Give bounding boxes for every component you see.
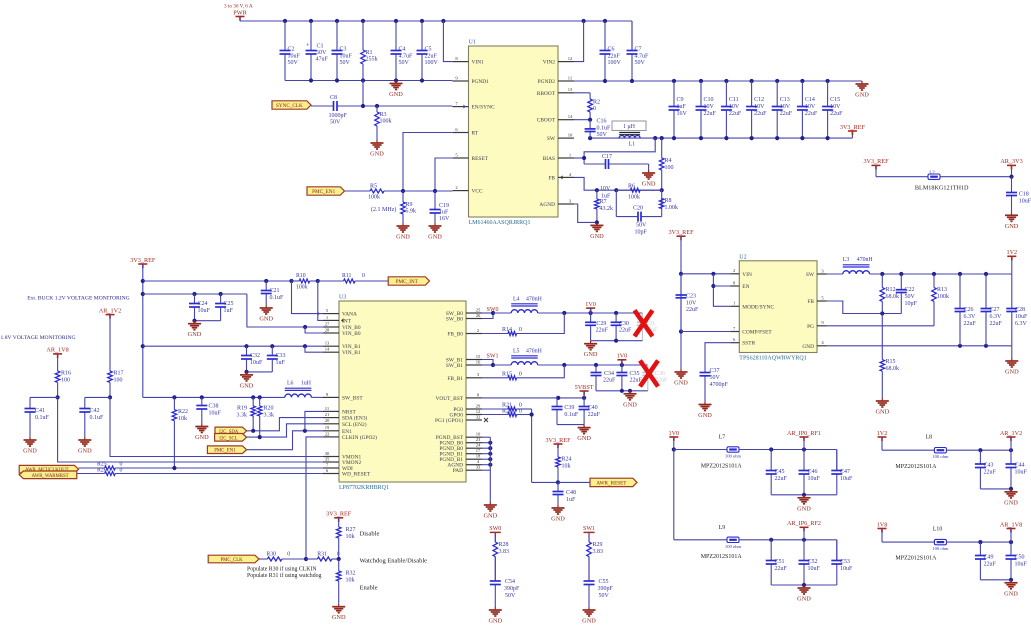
svg-text:50V: 50V: [399, 60, 410, 66]
svg-text:27: 27: [325, 321, 330, 326]
svg-text:EN1: EN1: [342, 429, 352, 435]
svg-text:C33: C33: [276, 353, 286, 359]
svg-text:R17: R17: [114, 371, 124, 377]
svg-text:100V: 100V: [425, 60, 439, 66]
svg-text:C30: C30: [619, 321, 629, 327]
svg-text:SW: SW: [547, 136, 556, 142]
svg-text:C7: C7: [635, 47, 642, 53]
svg-text:43.2k: 43.2k: [600, 206, 614, 212]
svg-text:L6: L6: [287, 381, 294, 387]
svg-text:16V: 16V: [677, 111, 688, 117]
svg-text:VANA: VANA: [342, 312, 357, 318]
svg-text:Populate R31 if using watchdog: Populate R31 if using watchdog: [247, 572, 321, 579]
svg-text:50V: 50V: [635, 60, 646, 66]
svg-text:BIAS: BIAS: [543, 156, 555, 162]
svg-text:50V: 50V: [288, 60, 299, 66]
svg-text:1uF: 1uF: [677, 104, 687, 110]
svg-text:C43: C43: [984, 463, 994, 469]
svg-text:AGND: AGND: [539, 202, 555, 208]
svg-text:0.1uF: 0.1uF: [564, 412, 579, 418]
svg-text:GND: GND: [1005, 369, 1019, 376]
svg-text:VIN_B1: VIN_B1: [342, 350, 361, 356]
svg-text:GND: GND: [590, 233, 604, 240]
svg-text:10k: 10k: [346, 534, 355, 540]
svg-text:SW_B0: SW_B0: [446, 317, 463, 323]
svg-text:SW_BST: SW_BST: [342, 395, 363, 401]
svg-text:6.3V: 6.3V: [1015, 321, 1028, 327]
svg-text:C52: C52: [808, 559, 818, 565]
svg-text:R26: R26: [97, 467, 107, 473]
svg-text:3V3_REF: 3V3_REF: [545, 437, 571, 444]
svg-text:C12: C12: [754, 97, 764, 103]
svg-text:C16: C16: [597, 119, 607, 125]
svg-text:6.3V: 6.3V: [964, 314, 977, 320]
svg-text:C18: C18: [1019, 191, 1029, 197]
svg-text:GND: GND: [195, 434, 209, 441]
svg-text:SW_B1: SW_B1: [446, 363, 463, 369]
svg-text:PMC_EN1: PMC_EN1: [312, 189, 335, 195]
svg-text:50V: 50V: [710, 375, 721, 381]
svg-text:C4: C4: [399, 47, 406, 53]
svg-text:BLM18KG121TH1D: BLM18KG121TH1D: [915, 185, 969, 192]
svg-text:GND: GND: [188, 331, 202, 338]
svg-text:0: 0: [519, 371, 522, 377]
svg-text:10uF: 10uF: [1019, 198, 1031, 204]
svg-text:AR_1V8: AR_1V8: [46, 347, 68, 354]
svg-text:50V: 50V: [340, 60, 351, 66]
svg-text:23: 23: [476, 437, 481, 442]
svg-text:22uF: 22uF: [425, 54, 438, 60]
svg-text:R22: R22: [178, 409, 188, 415]
svg-text:47uF: 47uF: [316, 57, 329, 63]
svg-text:SDA (EN3): SDA (EN3): [342, 415, 368, 422]
svg-text:C6: C6: [608, 47, 615, 53]
svg-text:32: 32: [476, 414, 481, 419]
svg-text:22uF: 22uF: [830, 111, 843, 117]
svg-text:R28: R28: [499, 542, 509, 548]
svg-text:C25: C25: [224, 301, 234, 307]
svg-text:10k: 10k: [562, 464, 571, 470]
svg-text:R7: R7: [600, 199, 607, 205]
svg-text:17: 17: [476, 448, 481, 453]
svg-text:C23: C23: [686, 294, 696, 300]
svg-text:GND: GND: [577, 435, 591, 442]
svg-text:390pF: 390pF: [504, 586, 520, 592]
svg-text:R12: R12: [886, 287, 896, 293]
svg-text:100: 100: [61, 378, 70, 384]
svg-text:TPS628110AQWRWYRQ1: TPS628110AQWRWYRQ1: [739, 356, 806, 362]
svg-text:C49: C49: [984, 555, 994, 561]
svg-text:100V: 100V: [608, 60, 622, 66]
svg-text:EN/SYNC: EN/SYNC: [472, 105, 495, 111]
svg-text:22uF: 22uF: [596, 328, 609, 334]
svg-text:R16: R16: [61, 371, 71, 377]
svg-text:PAD: PAD: [453, 468, 463, 474]
svg-text:C37: C37: [710, 368, 720, 374]
svg-text:GND: GND: [855, 92, 869, 99]
svg-text:Watchdog Enable/Disable: Watchdog Enable/Disable: [360, 558, 428, 565]
svg-text:100k: 100k: [937, 294, 949, 300]
svg-text:C55: C55: [599, 579, 609, 585]
svg-text:L7: L7: [719, 435, 726, 441]
svg-text:10uF: 10uF: [1015, 314, 1028, 320]
svg-text:C54: C54: [505, 579, 515, 585]
svg-text:10V: 10V: [780, 104, 791, 110]
svg-text:R14: R14: [502, 327, 512, 333]
svg-text:0: 0: [519, 327, 522, 333]
svg-text:GND: GND: [797, 505, 811, 512]
svg-text:SSTR: SSTR: [742, 341, 755, 347]
svg-text:C39: C39: [564, 405, 574, 411]
svg-text:GND: GND: [428, 234, 442, 241]
svg-text:C22: C22: [905, 287, 915, 293]
svg-text:6.3V: 6.3V: [990, 314, 1003, 320]
svg-text:20: 20: [325, 418, 330, 423]
svg-text:PMC_EN1: PMC_EN1: [214, 449, 236, 454]
svg-text:C10: C10: [704, 97, 714, 103]
svg-text:1uH: 1uH: [301, 381, 312, 387]
svg-text:C19: C19: [439, 203, 449, 209]
svg-text:MODE/SYNC: MODE/SYNC: [742, 304, 774, 310]
svg-text:GND: GND: [875, 409, 889, 416]
svg-text:AWR_WARMRST: AWR_WARMRST: [32, 474, 69, 479]
svg-text:R1: R1: [366, 50, 373, 56]
svg-text:0.1uF: 0.1uF: [597, 126, 612, 132]
svg-text:FB_B1: FB_B1: [447, 376, 463, 382]
svg-text:10uF: 10uF: [1015, 470, 1028, 476]
svg-text:100 ohm: 100 ohm: [932, 454, 949, 459]
svg-text:100 ohm: 100 ohm: [725, 454, 742, 459]
svg-text:(2.1 MHz): (2.1 MHz): [371, 206, 396, 213]
svg-text:24: 24: [476, 443, 481, 448]
svg-text:SCL (EN2): SCL (EN2): [342, 421, 367, 428]
svg-text:C36: C36: [655, 371, 665, 377]
svg-text:C5: C5: [425, 47, 432, 53]
svg-text:L8: L8: [926, 435, 933, 441]
svg-text:390pF: 390pF: [598, 586, 614, 592]
svg-text:C46: C46: [808, 469, 818, 475]
svg-text:R2: R2: [593, 100, 600, 106]
svg-text:22: 22: [325, 431, 330, 436]
svg-text:R4: R4: [665, 158, 672, 164]
svg-text:GND: GND: [674, 380, 688, 387]
svg-text:C38: C38: [209, 404, 219, 410]
svg-text:AR_3V3: AR_3V3: [1000, 158, 1022, 165]
svg-text:1uF: 1uF: [566, 497, 576, 503]
svg-text:10k: 10k: [178, 416, 187, 422]
svg-text:GND: GND: [332, 614, 346, 621]
svg-text:10V: 10V: [600, 186, 611, 192]
svg-text:GND: GND: [23, 448, 37, 455]
svg-text:29: 29: [476, 403, 481, 408]
svg-text:10pF: 10pF: [635, 230, 648, 236]
svg-text:1V0: 1V0: [668, 430, 679, 437]
svg-text:PMC_CLK: PMC_CLK: [220, 558, 243, 563]
svg-text:C9: C9: [677, 97, 684, 103]
svg-text:R32: R32: [346, 571, 356, 577]
svg-text:WD_RESET: WD_RESET: [342, 472, 371, 478]
svg-text:C2: C2: [288, 47, 295, 53]
svg-text:100k: 100k: [368, 195, 380, 201]
svg-text:COMP/FSET: COMP/FSET: [742, 330, 772, 336]
svg-text:11: 11: [568, 75, 573, 80]
svg-text:50V: 50V: [597, 132, 608, 138]
svg-text:1.00k: 1.00k: [665, 205, 679, 211]
svg-text:U1: U1: [469, 40, 476, 46]
svg-text:AR_1V2: AR_1V2: [99, 307, 121, 314]
svg-text:GND: GND: [259, 316, 273, 323]
svg-text:SW1: SW1: [583, 526, 595, 532]
svg-text:10V: 10V: [729, 104, 740, 110]
svg-text:470nH: 470nH: [526, 349, 543, 355]
svg-text:13: 13: [568, 87, 573, 92]
svg-text:C42: C42: [90, 408, 100, 414]
svg-text:10V: 10V: [704, 104, 715, 110]
svg-text:AR_IP0_RF1: AR_IP0_RF1: [787, 430, 821, 437]
svg-text:22uF: 22uF: [603, 378, 616, 384]
svg-text:GND: GND: [642, 181, 656, 188]
svg-text:100k: 100k: [380, 119, 392, 125]
svg-text:MPZ2012S101A: MPZ2012S101A: [701, 464, 743, 470]
svg-text:10uF: 10uF: [198, 308, 211, 314]
svg-text:GND: GND: [1005, 223, 1019, 230]
svg-text:L3: L3: [843, 257, 850, 263]
svg-text:100 ohm: 100 ohm: [932, 546, 949, 551]
svg-text:GND: GND: [370, 151, 384, 158]
svg-text:19: 19: [325, 425, 330, 430]
svg-text:10uF: 10uF: [288, 54, 301, 60]
svg-text:22uF: 22uF: [729, 111, 742, 117]
svg-text:50V: 50V: [599, 593, 610, 599]
svg-text:0.1uF: 0.1uF: [90, 415, 105, 421]
svg-text:21: 21: [325, 412, 330, 417]
svg-text:C14: C14: [805, 97, 815, 103]
svg-text:R15: R15: [886, 359, 896, 365]
svg-text:C32: C32: [250, 353, 260, 359]
svg-text:L2: L2: [929, 171, 935, 176]
svg-text:100: 100: [665, 165, 674, 171]
svg-text:GND: GND: [1004, 499, 1018, 506]
svg-text:RBOOT: RBOOT: [537, 91, 556, 97]
svg-text:L4: L4: [513, 297, 520, 303]
svg-text:C48: C48: [566, 490, 576, 496]
svg-text:FB: FB: [548, 175, 555, 181]
svg-text:C34: C34: [604, 371, 614, 377]
svg-text:68.0k: 68.0k: [886, 294, 900, 300]
svg-text:Enable: Enable: [360, 585, 378, 592]
svg-text:C28: C28: [1015, 307, 1025, 313]
svg-text:SW1: SW1: [487, 354, 499, 360]
svg-text:C45: C45: [775, 469, 785, 475]
svg-text:C47: C47: [840, 469, 850, 475]
svg-text:C15: C15: [830, 97, 840, 103]
svg-text:1uF: 1uF: [276, 360, 286, 366]
svg-text:C13: C13: [780, 97, 790, 103]
svg-text:10uF: 10uF: [250, 360, 263, 366]
svg-text:10k: 10k: [346, 578, 355, 584]
svg-text:R20: R20: [264, 406, 274, 412]
svg-text:1uF: 1uF: [224, 308, 234, 314]
svg-text:Ext. BUCK 1.2V VOLTAGE MONITOR: Ext. BUCK 1.2V VOLTAGE MONITORING: [27, 296, 130, 302]
svg-text:C3: C3: [340, 47, 347, 53]
svg-text:25: 25: [476, 307, 481, 312]
svg-text:1V8: 1V8: [877, 521, 888, 528]
svg-text:22uF: 22uF: [805, 111, 818, 117]
svg-text:22uF: 22uF: [775, 476, 788, 482]
svg-text:VCC: VCC: [472, 189, 483, 195]
svg-text:R30: R30: [266, 552, 276, 558]
svg-text:C44: C44: [1015, 463, 1025, 469]
svg-text:SW0: SW0: [489, 526, 501, 532]
svg-text:10uF: 10uF: [840, 566, 853, 572]
svg-text:255k: 255k: [366, 57, 378, 63]
svg-text:4.7uF: 4.7uF: [399, 54, 414, 60]
svg-text:C41: C41: [35, 408, 45, 414]
svg-text:12: 12: [568, 56, 573, 61]
svg-text:GND: GND: [488, 618, 502, 625]
svg-text:68.0k: 68.0k: [886, 366, 900, 372]
svg-text:50V: 50V: [505, 593, 516, 599]
svg-text:10V: 10V: [830, 104, 841, 110]
svg-text:C1: C1: [317, 44, 324, 50]
svg-text:SW: SW: [806, 272, 815, 278]
svg-text:14: 14: [325, 347, 330, 352]
svg-text:0: 0: [362, 273, 365, 279]
svg-text:R23: R23: [502, 408, 512, 414]
svg-text:10V: 10V: [805, 104, 816, 110]
svg-text:C17: C17: [602, 154, 612, 160]
svg-text:GND: GND: [483, 513, 497, 520]
svg-text:5VBST: 5VBST: [575, 384, 594, 391]
svg-text:33: 33: [476, 465, 481, 470]
svg-text:50V: 50V: [330, 120, 341, 126]
svg-text:L1: L1: [629, 142, 636, 148]
svg-text:16: 16: [476, 359, 481, 364]
svg-text:22nF: 22nF: [608, 54, 621, 60]
svg-text:22uF: 22uF: [754, 111, 767, 117]
svg-text:GND: GND: [584, 351, 598, 358]
svg-text:28: 28: [325, 327, 330, 332]
svg-text:R10: R10: [296, 273, 306, 279]
svg-text:PWR: PWR: [233, 9, 247, 16]
svg-text:22uF: 22uF: [686, 307, 699, 313]
svg-text:R27: R27: [346, 527, 356, 533]
svg-text:R5: R5: [370, 184, 377, 190]
svg-text:3.83: 3.83: [593, 549, 604, 555]
svg-text:0: 0: [287, 552, 290, 558]
svg-text:470nH: 470nH: [857, 257, 874, 263]
svg-text:C26: C26: [964, 307, 974, 313]
svg-text:PG1 (GPO1): PG1 (GPO1): [435, 417, 463, 424]
svg-text:1V0: 1V0: [617, 353, 628, 360]
svg-text:C21: C21: [270, 288, 280, 294]
svg-text:10pF: 10pF: [905, 301, 918, 307]
svg-text:GND: GND: [389, 91, 403, 98]
svg-text:AR_1V8: AR_1V8: [1000, 521, 1022, 528]
svg-text:GND: GND: [698, 412, 712, 419]
svg-text:470nH: 470nH: [526, 297, 543, 303]
svg-text:3.3k: 3.3k: [264, 413, 275, 419]
svg-text:C40: C40: [588, 405, 598, 411]
svg-text:AR_IP6_RF2: AR_IP6_RF2: [787, 520, 821, 527]
svg-text:C35: C35: [630, 371, 640, 377]
svg-text:VOUT_BST: VOUT_BST: [435, 396, 463, 402]
svg-text:FB: FB: [807, 299, 814, 305]
svg-text:0.1uF: 0.1uF: [35, 415, 50, 421]
svg-text:1.8V VOLTAGE MONITORING: 1.8V VOLTAGE MONITORING: [1, 335, 76, 341]
svg-text:C50: C50: [1015, 555, 1025, 561]
svg-text:CBOOT: CBOOT: [537, 118, 556, 124]
svg-text:PGND1: PGND1: [472, 79, 490, 85]
svg-text:22uF: 22uF: [984, 470, 997, 476]
svg-text:10: 10: [476, 432, 481, 437]
svg-text:C29: C29: [596, 321, 606, 327]
svg-text:GND: GND: [797, 596, 811, 603]
svg-text:RT: RT: [472, 131, 479, 137]
svg-text:C24: C24: [198, 301, 208, 307]
svg-text:R19: R19: [237, 406, 247, 412]
svg-text:R8: R8: [665, 198, 672, 204]
svg-text:10uF: 10uF: [209, 411, 222, 417]
svg-text:22uF: 22uF: [704, 111, 717, 117]
svg-text:GND: GND: [78, 448, 92, 455]
svg-text:VIN_B0: VIN_B0: [342, 331, 361, 337]
svg-text:GND: GND: [1004, 590, 1018, 597]
svg-text:100: 100: [114, 378, 123, 384]
svg-text:10V: 10V: [686, 301, 697, 307]
svg-text:5.9k: 5.9k: [406, 209, 417, 215]
svg-text:1V0: 1V0: [585, 301, 596, 308]
svg-text:R24: R24: [562, 457, 572, 463]
svg-text:4700pF: 4700pF: [710, 382, 729, 388]
svg-text:100 ohm: 100 ohm: [725, 544, 742, 549]
svg-text:22uF: 22uF: [780, 111, 793, 117]
svg-text:GND: GND: [551, 516, 565, 523]
svg-text:VIN1: VIN1: [472, 60, 485, 66]
svg-text:0: 0: [120, 467, 123, 473]
svg-text:10uF: 10uF: [808, 566, 821, 572]
svg-text:50V: 50V: [905, 294, 916, 300]
svg-text:0: 0: [593, 106, 596, 112]
svg-text:26: 26: [476, 313, 481, 318]
svg-text:1V2: 1V2: [1006, 249, 1017, 256]
svg-text:3.83: 3.83: [499, 549, 510, 555]
svg-text:R13: R13: [937, 287, 947, 293]
svg-text:MPZ2012S101A: MPZ2012S101A: [895, 556, 937, 562]
svg-text:RESET: RESET: [472, 156, 489, 162]
svg-text:PGND2: PGND2: [538, 79, 556, 85]
svg-text:U3: U3: [339, 295, 346, 301]
svg-text:L5: L5: [513, 349, 520, 355]
svg-text:GND: GND: [240, 382, 254, 389]
svg-text:AWR_RESET: AWR_RESET: [596, 480, 627, 486]
svg-text:U2: U2: [739, 254, 746, 260]
svg-text:R31: R31: [317, 552, 327, 558]
svg-text:EN: EN: [742, 284, 749, 290]
svg-text:22uF: 22uF: [588, 412, 601, 418]
svg-text:3.3k: 3.3k: [237, 413, 248, 419]
svg-text:L9: L9: [719, 525, 726, 531]
svg-text:LP87702KRHBRQ1: LP87702KRHBRQ1: [339, 485, 389, 491]
svg-text:GND: GND: [582, 618, 596, 625]
svg-text:18: 18: [476, 454, 481, 459]
svg-text:50V: 50V: [636, 223, 647, 229]
svg-text:3V3_REF: 3V3_REF: [840, 124, 866, 131]
svg-text:0: 0: [519, 408, 522, 414]
svg-text:LM61460AASQRJRRQ1: LM61460AASQRJRRQ1: [469, 220, 531, 226]
svg-text:VIN2: VIN2: [543, 60, 556, 66]
svg-text:4.7uF: 4.7uF: [635, 54, 650, 60]
